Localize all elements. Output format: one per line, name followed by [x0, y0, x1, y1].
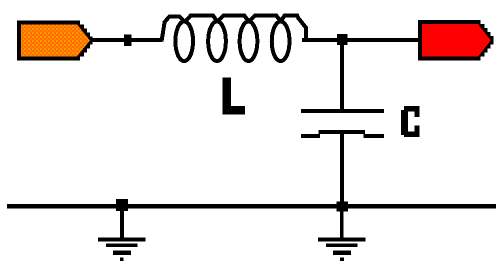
value label L — [223, 77, 245, 114]
inductor L exit descender — [298, 18, 305, 41]
ground 1 — [98, 237, 146, 261]
inductor L bridge arc 0 — [165, 16, 184, 21]
inductor L loop 2 — [208, 22, 226, 62]
ground rail wire — [7, 204, 496, 208]
inductor L exit arc — [281, 16, 299, 21]
inductor L loop 1 — [175, 22, 193, 62]
port tag IN (orange) — [17, 20, 93, 60]
node B junction dot — [337, 34, 348, 45]
wire node D to ground 2 — [340, 208, 344, 239]
port tag OUT (red) — [418, 20, 494, 61]
inductor L loop 3 — [240, 22, 258, 62]
inductor L bridge arc 2 — [218, 16, 248, 22]
value label C — [401, 106, 420, 137]
wire node B down to capacitor — [340, 40, 344, 111]
wire node A to output — [302, 38, 419, 42]
inductor L bridge arc 1 — [186, 16, 217, 22]
capacitor C bottom plate — [301, 132, 384, 136]
node A junction dot — [124, 35, 132, 47]
wire input to node A — [91, 38, 162, 42]
wire capacitor to ground rail — [340, 132, 344, 206]
inductor L loop 4 — [272, 22, 290, 62]
ground 2 — [318, 237, 366, 261]
node C junction dot (rail left) — [116, 199, 128, 211]
capacitor C top plate — [301, 109, 384, 113]
inductor L bridge arc 3 — [250, 16, 281, 22]
inductor L entry riser — [162, 21, 165, 42]
node D junction dot (rail under capacitor) — [337, 201, 348, 211]
wire node C to ground 1 — [120, 208, 124, 239]
